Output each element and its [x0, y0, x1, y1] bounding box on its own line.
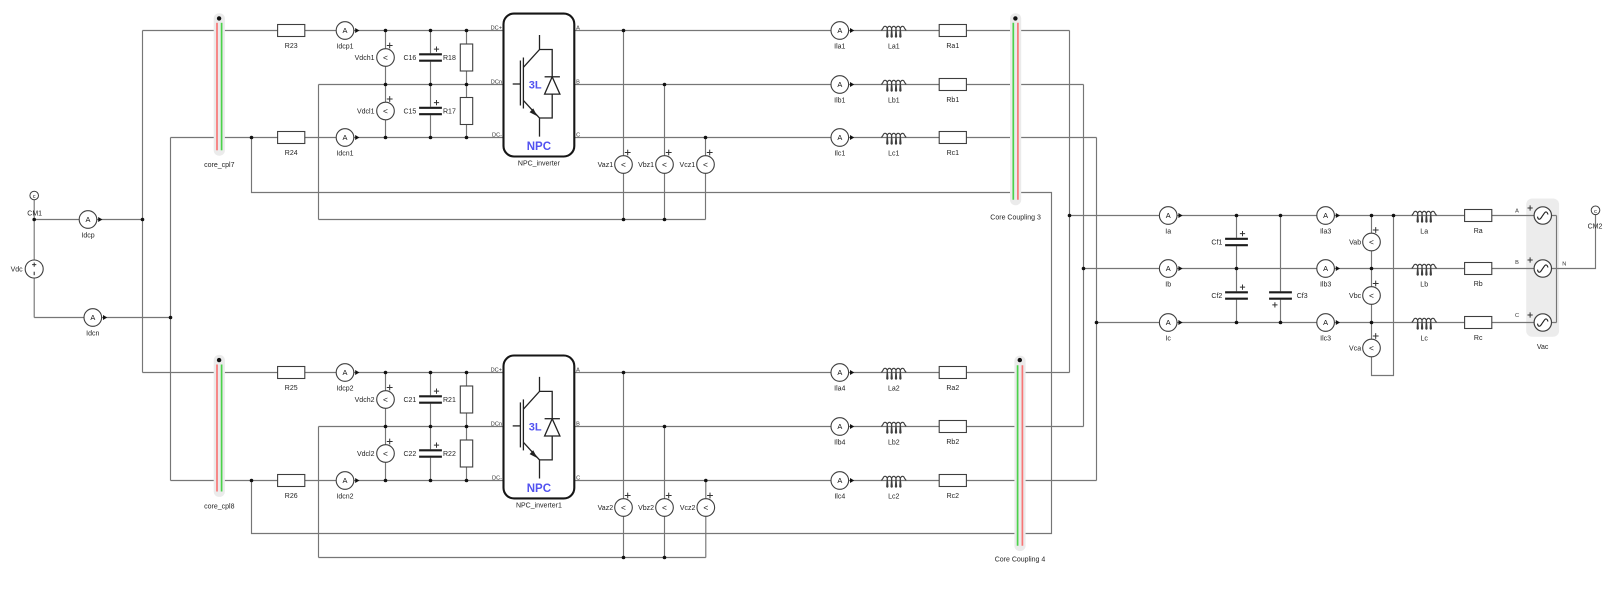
inductor Lc2	[881, 476, 906, 500]
svg-text:C: C	[1515, 313, 1519, 319]
capacitor C22	[403, 427, 441, 481]
node junction	[384, 371, 388, 375]
resistor R26	[278, 475, 305, 500]
node junction	[429, 425, 433, 429]
wire R21/R22 column	[466, 373, 468, 481]
source Vdc	[11, 260, 44, 278]
inductor Lc1	[881, 133, 906, 157]
node junction	[704, 479, 708, 483]
svg-text:DC+: DC+	[491, 25, 502, 31]
inductor Lb2	[881, 422, 906, 446]
svg-text:Ra1: Ra1	[946, 43, 959, 50]
svg-text:Lb2: Lb2	[888, 440, 900, 447]
svg-text:Vdc: Vdc	[11, 267, 24, 274]
meter CM1 (common-mode probe)	[27, 191, 42, 217]
wire DCn2 to z2 bus vertical	[318, 427, 320, 558]
wire z1 bus	[319, 219, 706, 221]
resistor R23	[278, 25, 305, 50]
resistor R24	[278, 132, 305, 157]
svg-text:A: A	[837, 26, 842, 35]
svg-text:A: A	[1166, 264, 1171, 273]
node junction	[663, 556, 667, 560]
wire DC- feed vertical	[170, 138, 172, 481]
svg-text:Ib: Ib	[1165, 282, 1171, 289]
node junction	[384, 425, 388, 429]
pin labels A/B/C of NPC inverters	[576, 25, 580, 481]
svg-text:Cf2: Cf2	[1211, 293, 1222, 300]
svg-text:Lc: Lc	[1420, 336, 1428, 343]
svg-text:Vbz1: Vbz1	[638, 162, 654, 169]
wire Idcn output	[34, 317, 170, 319]
ammeter Idcn	[84, 309, 107, 338]
wire Vca return loop	[1372, 216, 1394, 376]
svg-text:NPC_inverter1: NPC_inverter1	[516, 503, 562, 510]
svg-text:Rb: Rb	[1474, 281, 1483, 288]
inductor La2	[881, 368, 906, 392]
node junction	[465, 425, 469, 429]
ammeter Ilb1	[831, 76, 854, 105]
svg-text:R22: R22	[443, 451, 456, 458]
svg-text:Ilb3: Ilb3	[1320, 282, 1331, 289]
node junction	[1279, 214, 1283, 218]
resistor Ra2	[939, 367, 966, 392]
ammeter Ilb3	[1317, 260, 1340, 289]
capacitor C16	[403, 31, 441, 85]
resistor R17	[443, 98, 473, 125]
svg-text:Ra2: Ra2	[946, 385, 959, 392]
svg-text:Vdch2: Vdch2	[355, 397, 375, 404]
svg-text:R21: R21	[443, 397, 456, 404]
wire neutral wire to CM2	[1557, 215, 1596, 269]
ac source Vac phase C	[1534, 314, 1551, 331]
node junction	[622, 556, 626, 560]
svg-text:Cf3: Cf3	[1297, 293, 1308, 300]
node junction	[384, 29, 388, 33]
subsystem NPC_inverter (3L NPC inverter)	[504, 14, 575, 157]
node junction	[1370, 321, 1374, 325]
wire DC+ feed vertical	[142, 31, 144, 373]
voltmeter Vbz1	[638, 150, 673, 174]
svg-text:Vdcl1: Vdcl1	[357, 108, 375, 115]
svg-text:Idcn2: Idcn2	[336, 494, 353, 501]
wire z2 bus	[319, 557, 706, 559]
svg-text:Ila1: Ila1	[834, 44, 845, 51]
node junction	[1095, 321, 1099, 325]
svg-text:<: <	[1369, 290, 1374, 300]
node junction	[250, 136, 254, 140]
wire Vbz1 tap	[664, 85, 666, 220]
node junction	[1235, 321, 1239, 325]
capacitor C15	[403, 85, 441, 138]
voltmeter Vbc	[1349, 281, 1380, 305]
ammeter Ib	[1159, 260, 1182, 289]
svg-text:DC-: DC-	[492, 132, 502, 138]
svg-text:A: A	[1515, 209, 1519, 215]
node junction	[465, 479, 469, 483]
inductor La1	[881, 26, 906, 50]
svg-text:A: A	[1323, 318, 1328, 327]
svg-text:A: A	[837, 476, 842, 485]
voltmeter Vca	[1349, 333, 1380, 357]
svg-text:Vac: Vac	[1537, 344, 1549, 351]
node junction	[250, 479, 254, 483]
svg-text:CM2: CM2	[1588, 223, 1603, 230]
svg-text:Vcz2: Vcz2	[680, 505, 696, 512]
svg-text:A: A	[837, 368, 842, 377]
wire Vdch2/Vdcl2 column	[385, 373, 387, 481]
core coupling Core Coupling 4	[995, 356, 1046, 564]
wire Vab/Vbc column	[1371, 216, 1373, 323]
wire DCn rail inverter 2	[319, 426, 504, 428]
svg-text:R25: R25	[285, 385, 298, 392]
svg-text:Vca: Vca	[1349, 345, 1361, 352]
ammeter Ilc1	[831, 129, 854, 158]
wire Vcz1 tap	[705, 138, 707, 220]
svg-text:A: A	[1323, 264, 1328, 273]
svg-text:B: B	[576, 79, 580, 85]
wire DC+ rail inverter 1	[143, 30, 504, 32]
svg-text:Lc2: Lc2	[888, 494, 899, 501]
svg-text:Vdcl2: Vdcl2	[357, 451, 375, 458]
node junction	[32, 218, 36, 222]
svg-text:N: N	[1562, 262, 1566, 268]
svg-text:C15: C15	[403, 108, 416, 115]
voltmeter Vdcl2	[357, 439, 394, 463]
svg-text:Vbz2: Vbz2	[638, 505, 654, 512]
svg-text:Rc: Rc	[1474, 335, 1483, 342]
ammeter Idcn1	[336, 129, 359, 158]
svg-text:Vcz1: Vcz1	[680, 162, 696, 169]
node junction	[429, 29, 433, 33]
wire phase A rail inverter 1	[574, 30, 1069, 32]
svg-text:<: <	[383, 448, 388, 458]
pin labels A/B/C/N of Vac block	[1515, 209, 1566, 319]
svg-text:Lb1: Lb1	[888, 98, 900, 105]
ammeter Ilc4	[831, 472, 854, 501]
svg-text:Rb2: Rb2	[946, 439, 959, 446]
ac source Vac phase A	[1534, 207, 1551, 224]
svg-text:Rb1: Rb1	[946, 97, 959, 104]
wire DC- interconnect loop	[252, 138, 1052, 534]
capacitor Cf1	[1211, 216, 1248, 269]
svg-text:Ilc1: Ilc1	[834, 151, 845, 158]
node junction	[663, 218, 667, 222]
ammeter Idcn2	[336, 472, 359, 501]
svg-text:R24: R24	[285, 150, 298, 157]
svg-text:Ic: Ic	[1165, 336, 1171, 343]
voltmeter Vcz1	[680, 150, 715, 174]
svg-text:La2: La2	[888, 386, 900, 393]
ammeter Ila4	[831, 364, 854, 393]
resistor Rb2	[939, 421, 966, 446]
wire R18/R17 column	[466, 31, 468, 138]
svg-text:<: <	[703, 159, 708, 169]
svg-text:DC+: DC+	[491, 367, 502, 373]
svg-text:Vdch1: Vdch1	[355, 55, 375, 62]
svg-text:Cf1: Cf1	[1211, 239, 1222, 246]
svg-text:Ilc3: Ilc3	[1320, 336, 1331, 343]
wire phase A vertical	[1069, 31, 1071, 373]
svg-text:Rc1: Rc1	[947, 150, 960, 157]
inductor Lb1	[881, 80, 906, 104]
ac source Vac phase B	[1534, 260, 1551, 277]
wire DC- rail inverter 2	[171, 480, 504, 482]
node junction	[1392, 214, 1396, 218]
voltmeter Vaz1	[598, 150, 633, 174]
wire DCn rail inverter 1	[319, 84, 504, 86]
svg-text:Ila3: Ila3	[1320, 229, 1331, 236]
wire phase B rail inverter 1	[574, 84, 1083, 86]
inductor Lb	[1412, 264, 1437, 288]
svg-text:A: A	[86, 215, 91, 224]
wire CM1 to Vdc	[33, 200, 35, 261]
svg-text:Vaz2: Vaz2	[598, 505, 614, 512]
svg-text:core_cpl8: core_cpl8	[204, 504, 234, 511]
resistor Rc	[1465, 317, 1492, 342]
node junction	[465, 371, 469, 375]
wire DC+ rail inverter 2	[143, 372, 504, 374]
wire DC- rail inverter 1	[171, 137, 504, 139]
node junction	[465, 83, 469, 87]
resistor Rb	[1465, 263, 1492, 288]
wire Vaz2 tap	[623, 373, 625, 558]
resistor R22	[443, 440, 473, 467]
wire Vbz2 tap	[664, 427, 666, 558]
node junction	[1235, 267, 1239, 271]
svg-text:B: B	[576, 421, 580, 427]
svg-text:3L: 3L	[529, 80, 542, 92]
svg-text:Ilc4: Ilc4	[834, 494, 845, 501]
svg-text:Idcp2: Idcp2	[336, 386, 353, 393]
svg-text:<: <	[383, 106, 388, 116]
node junction	[169, 316, 173, 320]
svg-text:<: <	[621, 159, 626, 169]
node junction	[663, 425, 667, 429]
svg-text:Vbc: Vbc	[1349, 293, 1362, 300]
svg-text:NPC: NPC	[527, 141, 551, 153]
svg-text:B: B	[1515, 260, 1519, 266]
ammeter Ila3	[1317, 207, 1340, 236]
voltmeter Vdch1	[355, 43, 395, 67]
svg-text:A: A	[343, 476, 348, 485]
svg-text:Ra: Ra	[1474, 228, 1483, 235]
svg-text:Idcp1: Idcp1	[336, 44, 353, 51]
capacitor C21	[403, 373, 441, 427]
svg-text:DCn: DCn	[491, 421, 502, 427]
svg-text:Vab: Vab	[1349, 239, 1361, 246]
node junction	[429, 136, 433, 140]
node junction	[465, 29, 469, 33]
svg-text:c: c	[1594, 209, 1597, 215]
wire Vdc to Idcn corner	[33, 278, 35, 318]
ammeter Ic	[1159, 314, 1182, 343]
voltmeter Vab	[1349, 227, 1380, 251]
wire phase C vertical	[1096, 138, 1098, 481]
wire phase C rail inverter 1	[574, 137, 1096, 139]
ammeter Idcp1	[336, 22, 359, 51]
svg-text:Vaz1: Vaz1	[598, 162, 614, 169]
inductor La	[1412, 211, 1437, 235]
svg-text:Idcp: Idcp	[81, 233, 94, 240]
svg-text:La1: La1	[888, 44, 900, 51]
wire load bus C	[1097, 322, 1557, 324]
node junction	[622, 29, 626, 33]
svg-text:<: <	[383, 394, 388, 404]
svg-text:<: <	[662, 502, 667, 512]
svg-text:A: A	[343, 368, 348, 377]
svg-text:Idcn: Idcn	[86, 331, 99, 338]
node junction	[465, 136, 469, 140]
ammeter Idcp	[79, 211, 102, 240]
svg-text:A: A	[576, 25, 580, 31]
svg-text:Lb: Lb	[1420, 282, 1428, 289]
voltmeter Vdch2	[355, 385, 395, 409]
svg-text:C: C	[576, 132, 580, 138]
ammeter Ia	[1159, 207, 1182, 236]
subsystem NPC_inverter1 (3L NPC inverter)	[504, 356, 575, 499]
svg-text:C21: C21	[403, 397, 416, 404]
wire Vdch1/Vdcl1 column	[385, 31, 387, 138]
node junction	[384, 83, 388, 87]
svg-text:A: A	[837, 422, 842, 431]
svg-text:La: La	[1420, 229, 1428, 236]
svg-text:Lc1: Lc1	[888, 151, 899, 158]
svg-text:NPC_inverter: NPC_inverter	[518, 161, 561, 168]
svg-text:A: A	[837, 80, 842, 89]
node junction	[1235, 214, 1239, 218]
svg-text:Ilb1: Ilb1	[834, 98, 845, 105]
svg-text:core_cpl7: core_cpl7	[204, 162, 234, 169]
node junction	[1082, 267, 1086, 271]
wire Idcp output	[34, 219, 142, 221]
svg-text:CM1: CM1	[27, 210, 42, 217]
wire Vcz2 tap	[705, 481, 707, 558]
svg-text:Idcn1: Idcn1	[336, 151, 353, 158]
resistor Rb1	[939, 79, 966, 104]
svg-text:c: c	[33, 194, 36, 200]
svg-text:Core Coupling 3: Core Coupling 3	[990, 215, 1041, 222]
ammeter Ilb4	[831, 418, 854, 447]
ammeter Ilc3	[1317, 314, 1340, 343]
node junction	[429, 83, 433, 87]
svg-text:Ia: Ia	[1165, 229, 1171, 236]
node junction	[622, 218, 626, 222]
svg-text:A: A	[343, 26, 348, 35]
svg-text:Ila4: Ila4	[834, 386, 845, 393]
wire DCn to z1 bus vertical	[318, 85, 320, 220]
node junction	[1370, 214, 1374, 218]
svg-text:<: <	[1369, 343, 1374, 353]
core coupling core_cpl8	[204, 355, 234, 511]
resistor R18	[443, 44, 473, 71]
node junction	[141, 218, 145, 222]
ammeter Idcp2	[336, 364, 359, 393]
polarity marks of Vac sources	[1528, 205, 1533, 317]
wire Vaz1 tap	[623, 31, 625, 220]
wire phase B rail inverter 2	[574, 426, 1083, 428]
node junction	[429, 371, 433, 375]
svg-text:DCn: DCn	[491, 79, 502, 85]
capacitor Cf3	[1269, 216, 1308, 323]
svg-text:Core Coupling 4: Core Coupling 4	[995, 556, 1046, 563]
resistor Rc2	[939, 475, 966, 500]
svg-text:R17: R17	[443, 108, 456, 115]
svg-text:C16: C16	[403, 55, 416, 62]
wire phase C rail inverter 2	[574, 480, 1096, 482]
node junction	[429, 479, 433, 483]
svg-text:R23: R23	[285, 43, 298, 50]
voltmeter Vcz2	[680, 493, 715, 517]
voltmeter Vaz2	[598, 493, 633, 517]
node junction	[1279, 321, 1283, 325]
node junction	[663, 83, 667, 87]
voltmeter Vdcl1	[357, 96, 394, 120]
node junction	[622, 371, 626, 375]
voltmeter Vbz2	[638, 493, 673, 517]
svg-text:C22: C22	[403, 451, 416, 458]
capacitor Cf2	[1211, 269, 1248, 323]
svg-text:NPC: NPC	[527, 483, 551, 495]
wire Vac right bus	[1556, 216, 1558, 323]
svg-text:Ilb4: Ilb4	[834, 440, 845, 447]
inductor Lc	[1412, 318, 1437, 342]
svg-text:<: <	[621, 502, 626, 512]
svg-text:A: A	[576, 367, 580, 373]
wire load bus B	[1084, 268, 1557, 270]
resistor Ra1	[939, 25, 966, 50]
node junction	[1370, 267, 1374, 271]
subsystem Vac (three-phase source block background)	[1526, 199, 1559, 337]
wire phase A rail inverter 2	[574, 372, 1069, 374]
pin labels DC+/DCn/DC- of NPC inverters	[491, 25, 502, 481]
svg-text:A: A	[1323, 211, 1328, 220]
svg-text:<: <	[662, 159, 667, 169]
wire load bus A	[1070, 215, 1557, 217]
node junction	[704, 136, 708, 140]
svg-text:R18: R18	[443, 55, 456, 62]
node junction	[384, 136, 388, 140]
node junction	[384, 479, 388, 483]
svg-text:Rc2: Rc2	[947, 493, 960, 500]
core coupling core_cpl7	[204, 13, 234, 169]
resistor R25	[278, 367, 305, 392]
svg-text:<: <	[1369, 237, 1374, 247]
svg-text:<: <	[703, 502, 708, 512]
resistor Ra	[1465, 210, 1492, 235]
svg-text:A: A	[343, 133, 348, 142]
svg-text:<: <	[383, 52, 388, 62]
svg-text:A: A	[1166, 318, 1171, 327]
meter CM2 (common-mode probe)	[1588, 206, 1603, 230]
svg-text:DC-: DC-	[492, 475, 502, 481]
resistor R21	[443, 386, 473, 413]
ammeter Ila1	[831, 22, 854, 51]
svg-text:R26: R26	[285, 493, 298, 500]
svg-text:A: A	[1166, 211, 1171, 220]
svg-text:C: C	[576, 475, 580, 481]
core coupling Core Coupling 3	[990, 13, 1041, 221]
node junction	[1068, 214, 1072, 218]
svg-text:A: A	[90, 313, 95, 322]
wire phase B vertical	[1083, 85, 1085, 427]
resistor Rc1	[939, 132, 966, 157]
svg-text:A: A	[837, 133, 842, 142]
svg-text:3L: 3L	[529, 422, 542, 434]
